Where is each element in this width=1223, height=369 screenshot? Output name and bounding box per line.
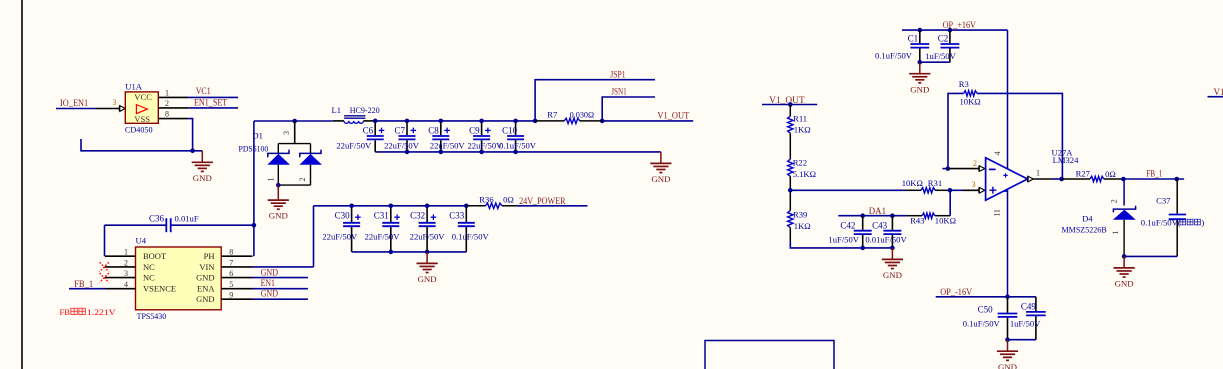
svg-text:GND: GND [261, 288, 279, 298]
wire U1A pin8 to ground [188, 119, 192, 151]
svg-text:C50: C50 [978, 305, 994, 315]
ground GND (cap bank) [650, 152, 671, 184]
ground GND (C1) [909, 62, 930, 94]
svg-text:TPS5430: TPS5430 [137, 311, 167, 321]
capacitor C32 [410, 206, 446, 252]
wire pin 7 VIN [253, 266, 314, 268]
svg-text:U1A: U1A [125, 81, 143, 91]
wire V1_OUT [602, 120, 693, 122]
svg-text:): ) [1201, 218, 1204, 228]
junction 24V rail [464, 204, 469, 209]
svg-text:OP_+16V: OP_+16V [943, 20, 977, 30]
resistor R22 [788, 159, 793, 176]
capacitor C1 [875, 30, 929, 62]
svg-text:MMSZ5226B: MMSZ5226B [1062, 224, 1107, 234]
svg-text:C43: C43 [872, 220, 888, 230]
junction U1A ground node [190, 149, 195, 154]
wire VC1 [188, 96, 238, 98]
U4 pin 7 lead [221, 266, 252, 268]
wire C1 C2 bottom [920, 61, 950, 63]
junction C50 ground [1005, 337, 1010, 342]
wire V1_OUT (right) [762, 104, 817, 106]
svg-text:C7: C7 [394, 126, 405, 136]
junction C43 bottom / ground [890, 246, 895, 251]
diode D1 pin 3 lead [294, 121, 296, 144]
junction C1 [918, 28, 923, 33]
svg-text:1.221V: 1.221V [87, 307, 117, 317]
svg-text:R7: R7 [547, 110, 558, 120]
sheet block outline (bottom) [705, 341, 834, 369]
wire to R31 [790, 189, 905, 191]
svg-text:C10: C10 [502, 126, 518, 136]
wire pin 5 ENA [253, 288, 308, 290]
svg-text:3: 3 [113, 98, 117, 107]
ground GND (U1A) [192, 151, 213, 183]
no-ERC mark pin 2 [100, 262, 109, 271]
wire R3 left leg [948, 93, 964, 168]
U1A pin 1 lead [158, 96, 188, 98]
ground GND (D1) [268, 185, 289, 221]
capacitor C37 [1169, 179, 1186, 256]
svg-text:OP_-16V: OP_-16V [940, 287, 972, 297]
junction D4 top [1121, 177, 1126, 182]
svg-text:1: 1 [1036, 169, 1040, 178]
svg-text:U4: U4 [136, 236, 147, 246]
junction top rail [479, 119, 484, 124]
capacitor C36 [105, 218, 254, 232]
inductor L1 [333, 116, 375, 124]
svg-text:3: 3 [972, 180, 976, 189]
svg-text:7: 7 [229, 258, 233, 267]
junction pin 2 / R3 [946, 166, 951, 171]
svg-text:VSS: VSS [134, 114, 150, 124]
svg-text:2: 2 [165, 99, 169, 108]
junction C37 top [1175, 177, 1180, 182]
wire OP_+16V rail [902, 29, 1008, 31]
svg-text:C2: C2 [938, 34, 949, 44]
wire cap bank bottom rail to ground [375, 151, 661, 153]
svg-text:5.1KΩ: 5.1KΩ [793, 169, 816, 179]
capacitor C8 [428, 121, 465, 152]
sheet border line [21, 0, 23, 369]
svg-text:FB_1: FB_1 [1146, 169, 1162, 179]
svg-text:GND: GND [910, 84, 929, 94]
svg-text:R3: R3 [959, 79, 969, 89]
svg-text:1uF/50V: 1uF/50V [925, 51, 956, 61]
junction 24V rail [349, 204, 354, 209]
wire 24V top rail [314, 205, 467, 207]
U4 pin 4 lead [105, 288, 136, 290]
capacitor C9 [467, 121, 503, 152]
wire C30-C33 bottom rail [352, 251, 467, 253]
resistor R3 [964, 91, 977, 96]
svg-text:R39: R39 [793, 210, 807, 220]
svg-text:FB: FB [60, 307, 71, 317]
wire pin 2 stub [942, 168, 947, 170]
IC U4 body [136, 247, 222, 310]
op-amp pin 4 wire (V+) [1007, 30, 1009, 169]
svg-text:3: 3 [124, 269, 128, 278]
junction output node [1059, 177, 1064, 182]
junction C1 ground [918, 60, 923, 65]
svg-text:C30: C30 [335, 210, 351, 220]
svg-text:3: 3 [282, 131, 291, 135]
U4 pin 5 lead [221, 288, 252, 290]
svg-text:R31: R31 [928, 178, 942, 188]
svg-text:D1: D1 [252, 130, 263, 140]
svg-text:GND: GND [883, 270, 902, 280]
svg-text:1uF/50V: 1uF/50V [1010, 318, 1041, 328]
svg-text:22uF/50V: 22uF/50V [365, 231, 401, 241]
svg-text:10KΩ: 10KΩ [935, 216, 956, 226]
diode D1 top bar [278, 143, 310, 145]
svg-text:0.1uF/50V(: 0.1uF/50V( [1141, 218, 1181, 228]
wire R31 input [905, 189, 950, 191]
junction R7 right / JSN1 tap [600, 119, 605, 124]
svg-text:22uF/50V: 22uF/50V [384, 140, 420, 150]
svg-text:R27: R27 [1076, 169, 1091, 179]
svg-text:22uF/50V: 22uF/50V [430, 140, 466, 150]
svg-text:C42: C42 [840, 220, 855, 230]
junction C43 top [890, 213, 895, 218]
svg-text:R22: R22 [793, 158, 807, 168]
U1A pin 3 input glyph [119, 106, 125, 112]
svg-text:C33: C33 [449, 210, 465, 220]
svg-text:0.1uF/50V: 0.1uF/50V [452, 231, 490, 241]
svg-text:VC1: VC1 [196, 86, 211, 96]
svg-text:1: 1 [1111, 231, 1120, 235]
svg-text:C8: C8 [428, 126, 439, 136]
ground GND (D4) [1114, 256, 1135, 288]
op-amp buffer U1A body [125, 92, 158, 124]
junction bottom rail [439, 150, 444, 155]
svg-text:GND: GND [269, 211, 288, 221]
U1A pin 3 lead [95, 108, 120, 110]
svg-text:C49: C49 [1021, 301, 1037, 311]
wire DA1 [838, 215, 907, 217]
svg-text:IO_EN1: IO_EN1 [60, 98, 88, 108]
wire pin 9 GND [253, 298, 308, 300]
svg-text:JSP1: JSP1 [610, 69, 625, 79]
junction C36/PH [252, 223, 257, 228]
svg-text:GND: GND [418, 274, 437, 284]
svg-text:C1: C1 [908, 34, 919, 44]
wire FB_1 (left) [69, 288, 105, 290]
diode D1-B (schottky) [300, 144, 322, 186]
svg-text:22uF/50V: 22uF/50V [410, 231, 446, 241]
junction C42 top [860, 213, 865, 218]
junction op-amp + node [948, 188, 953, 193]
svg-text:11: 11 [993, 209, 1002, 217]
capacitor C31 [365, 206, 401, 252]
wire PH drop to pin 8 [253, 225, 255, 256]
svg-text:1: 1 [165, 88, 169, 97]
junction divider mid [788, 188, 793, 193]
wire V1 top rail [375, 120, 535, 122]
wire pin 6 GND [253, 277, 308, 279]
svg-text:0.1uF/50V: 0.1uF/50V [875, 51, 913, 61]
resistor R36 [466, 205, 517, 207]
resistor R11 [789, 105, 791, 160]
wire stub left [81, 139, 202, 151]
svg-text:6: 6 [229, 269, 233, 278]
junction bottom rail [479, 150, 484, 155]
capacitor C33 [449, 206, 489, 252]
wire right edge [1208, 96, 1223, 98]
svg-text:0.1uF/50V: 0.1uF/50V [499, 140, 537, 150]
svg-text:R43: R43 [910, 216, 924, 226]
wire R39 bottom [789, 228, 791, 241]
op-amp pin 3 lead [963, 189, 979, 191]
junction top rail [513, 119, 518, 124]
svg-text:24V_POWER: 24V_POWER [519, 196, 565, 206]
svg-text:GND: GND [651, 174, 670, 184]
U4 pin 3 lead [105, 277, 136, 279]
svg-text:9: 9 [229, 291, 233, 300]
wire R3 right leg [977, 93, 1062, 178]
svg-text:C6: C6 [363, 126, 374, 136]
svg-text:VIN: VIN [199, 262, 214, 272]
op-amp pin 3 glyph [979, 188, 985, 194]
svg-text:V1: V1 [1214, 87, 1223, 97]
wire JSN1 [602, 97, 655, 121]
svg-text:5: 5 [229, 280, 233, 289]
resistor R43 [907, 215, 950, 217]
svg-text:2: 2 [1110, 199, 1119, 203]
op-amp pin 1 glyph [1028, 176, 1034, 182]
junction 24V rail [425, 204, 430, 209]
svg-text:EN1_SET: EN1_SET [194, 98, 228, 108]
svg-text:ENA: ENA [197, 284, 215, 294]
junction D1 bottom [276, 183, 281, 188]
svg-text:GND: GND [998, 362, 1017, 369]
U4 pin 1 lead [105, 255, 136, 257]
ground GND (C50) [997, 340, 1018, 369]
no-ERC mark pin 3 [100, 273, 109, 282]
svg-text:VSENCE: VSENCE [143, 284, 176, 294]
svg-text:22uF/50V: 22uF/50V [336, 140, 372, 150]
resistor R7 [535, 120, 602, 122]
capacitor C10 [499, 121, 537, 152]
wire PH rail to L1 [254, 120, 333, 122]
wire output [1052, 178, 1062, 180]
wire R22 to R39 [789, 176, 791, 210]
svg-text:10KΩ: 10KΩ [902, 178, 923, 188]
svg-text:1KΩ: 1KΩ [794, 221, 811, 231]
svg-text:2: 2 [124, 258, 128, 267]
wire JSP1 [535, 80, 655, 121]
capacitor C7 [384, 121, 420, 152]
svg-text:0Ω: 0Ω [503, 195, 514, 205]
junction bottom C31 [389, 250, 394, 255]
junction top rail [373, 119, 378, 124]
svg-text:LM324: LM324 [1053, 155, 1079, 165]
svg-text:GND: GND [261, 267, 279, 277]
junction 24V rail [389, 204, 394, 209]
svg-text:C9: C9 [469, 126, 480, 136]
capacitor C30 [322, 206, 360, 252]
svg-text:NC: NC [143, 262, 155, 272]
svg-text:2: 2 [973, 159, 977, 168]
junction top rail [405, 119, 410, 124]
svg-text:0.1uF/50V: 0.1uF/50V [963, 318, 1001, 328]
junction C50 top [1005, 295, 1010, 300]
wire OP_-16V rail [936, 296, 1036, 298]
U4 pin 2 lead [105, 266, 136, 268]
svg-text:V1_OUT: V1_OUT [657, 111, 689, 121]
svg-text:R36: R36 [479, 195, 494, 205]
wire to pin 3 [950, 189, 963, 191]
U1A pin 8 lead [158, 118, 188, 120]
svg-text:GND: GND [196, 273, 214, 283]
svg-text:FB_1: FB_1 [74, 279, 93, 289]
svg-text:8: 8 [165, 110, 169, 119]
svg-text:L1: L1 [332, 105, 342, 115]
resistor R31 [921, 188, 935, 193]
wire PH node vertical [253, 121, 255, 225]
junction top rail [439, 119, 444, 124]
svg-text:CD4050: CD4050 [125, 125, 153, 135]
svg-text:4: 4 [124, 280, 128, 289]
op-amp pin 2 glyph [979, 166, 985, 172]
wire 24V_POWER [517, 205, 588, 207]
svg-text:PH: PH [204, 251, 215, 261]
svg-text:DA1: DA1 [869, 206, 886, 216]
wire R43 to op-amp input [949, 190, 951, 215]
svg-text:JSN1: JSN1 [611, 87, 626, 97]
svg-text:D4: D4 [1082, 214, 1093, 224]
wire VIN drop [313, 206, 315, 267]
junction bottom C32 [425, 250, 430, 255]
capacitor C49 [1010, 297, 1046, 340]
svg-text:22uF/50V: 22uF/50V [467, 140, 503, 150]
svg-text:BOOT: BOOT [143, 251, 167, 261]
resistor R39 [788, 211, 793, 228]
op-amp pin 11 wire (V-) [1007, 189, 1009, 297]
svg-text:0.01uF: 0.01uF [175, 214, 199, 224]
U1A pin 2 lead [158, 107, 188, 109]
U4 pin 9 lead [221, 298, 252, 300]
svg-text:C36: C36 [149, 214, 165, 224]
capacitor C2 [925, 30, 959, 62]
svg-text:GND: GND [193, 173, 212, 183]
junction bottom rail [405, 150, 410, 155]
svg-text:EN1: EN1 [261, 278, 275, 288]
junction C42 bottom [860, 246, 865, 251]
svg-text:1: 1 [267, 178, 276, 182]
resistor R27 [1062, 178, 1124, 180]
op-amp pin 2 lead [948, 168, 980, 170]
svg-text:GND: GND [196, 294, 214, 304]
ground GND (C43) [882, 248, 903, 280]
junction C2 [948, 28, 953, 33]
zener diode D4 [1113, 179, 1136, 256]
capacitor C6 [336, 121, 384, 152]
svg-text:V1_OUT: V1_OUT [769, 95, 805, 105]
wire BOOT drop [104, 225, 106, 256]
svg-text:10KΩ: 10KΩ [960, 97, 981, 107]
svg-text:0.01uF/50V: 0.01uF/50V [865, 235, 907, 245]
wire IO_EN1 [56, 108, 95, 110]
ground GND (C30 bank) [417, 252, 438, 284]
svg-text:4: 4 [993, 151, 1002, 155]
capacitor C42 [828, 216, 871, 248]
diode D1-A (schottky) [267, 144, 290, 186]
svg-text:1uF/50V: 1uF/50V [828, 235, 859, 245]
junction R7 left [533, 119, 538, 124]
op-amp U27A triangle [986, 158, 1028, 200]
svg-text:VCC: VCC [134, 92, 152, 102]
svg-text:HC9-220: HC9-220 [350, 105, 380, 115]
svg-text:1KΩ: 1KΩ [794, 124, 811, 134]
wire FB_1 (right) [1123, 178, 1184, 180]
svg-text:C31: C31 [374, 210, 389, 220]
wire D1 bottom [278, 184, 310, 186]
junction D4 bottom [1122, 254, 1127, 259]
capacitor C43 [865, 216, 907, 248]
svg-text:0Ω: 0Ω [1105, 169, 1116, 179]
svg-text:C32: C32 [410, 210, 425, 220]
svg-text:0.030Ω: 0.030Ω [570, 110, 595, 120]
svg-text:GND: GND [1115, 279, 1134, 289]
U4 pin 8 lead [221, 255, 252, 257]
wire C50 C49 bottom [1008, 339, 1036, 341]
svg-text:22uF/50V: 22uF/50V [322, 231, 358, 241]
svg-text:C37: C37 [1156, 196, 1171, 206]
wire EN1_SET [188, 107, 238, 109]
junction bottom rail [513, 150, 518, 155]
svg-text:8: 8 [229, 248, 233, 257]
junction divider top [788, 102, 793, 107]
junction D1 top [292, 119, 297, 124]
wire D4 ground link [1124, 255, 1177, 257]
op-amp pin 1 lead [1033, 178, 1052, 180]
svg-text:1: 1 [124, 248, 128, 257]
svg-text:PDS5100: PDS5100 [239, 144, 269, 154]
U4 pin 6 lead [221, 277, 252, 279]
svg-text:2: 2 [298, 178, 307, 182]
svg-text:R11: R11 [793, 114, 807, 124]
capacitor C50 [963, 297, 1018, 340]
svg-text:NC: NC [143, 273, 155, 283]
